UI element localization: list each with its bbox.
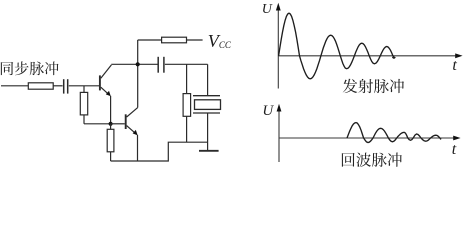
svg-text:U: U — [262, 103, 274, 119]
svg-text:CC: CC — [219, 40, 232, 50]
svg-text:t: t — [452, 57, 457, 74]
svg-text:t: t — [452, 141, 457, 158]
svg-text:U: U — [262, 2, 273, 17]
